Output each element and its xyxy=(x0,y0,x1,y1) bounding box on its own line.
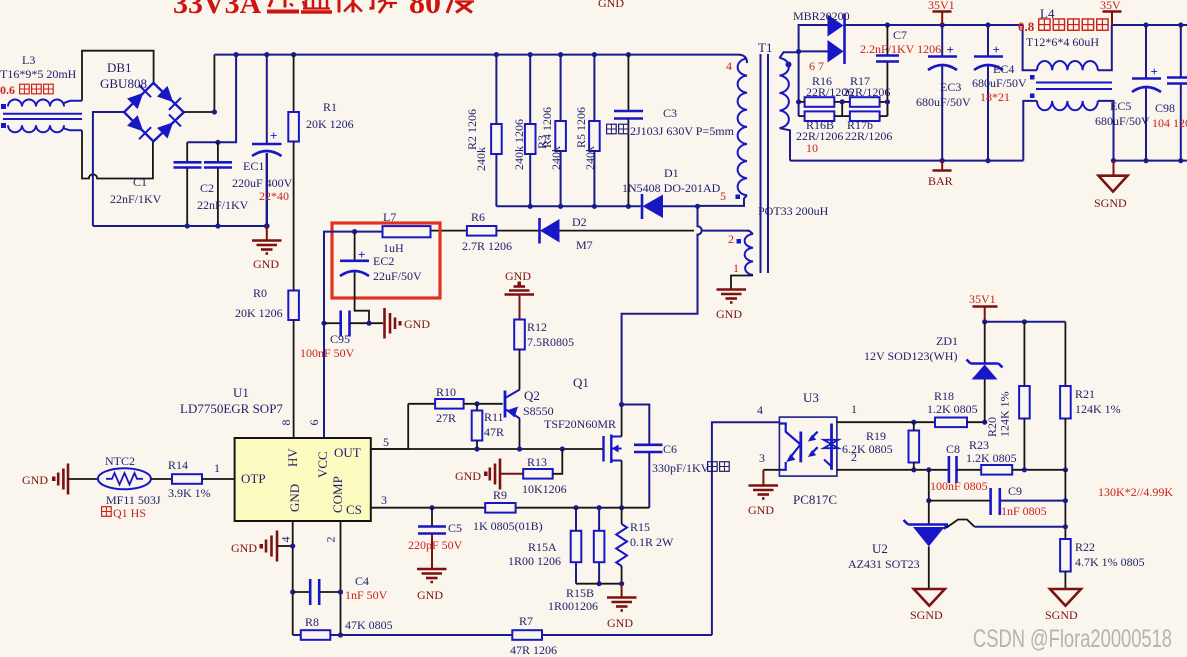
svg-text:EC4: EC4 xyxy=(993,62,1014,76)
wire: C1/C2 feed from bus xyxy=(187,55,236,143)
svg-text:1: 1 xyxy=(214,461,220,475)
transistor Q2 S8550 (PNP) xyxy=(505,385,554,449)
svg-text:12V SOD123(WH): 12V SOD123(WH) xyxy=(864,349,957,363)
svg-text:SGND: SGND xyxy=(1094,196,1127,210)
inductor L7 xyxy=(383,210,431,255)
svg-text:CSDN @Flora20000518: CSDN @Flora20000518 xyxy=(973,625,1172,653)
zener ZD1 xyxy=(864,322,1003,422)
svg-text:EC1: EC1 xyxy=(243,159,264,173)
svg-text:5: 5 xyxy=(383,435,389,449)
svg-text:+: + xyxy=(947,42,954,57)
svg-text:C8: C8 xyxy=(946,442,960,456)
svg-text:AZ431 SOT23: AZ431 SOT23 xyxy=(848,557,920,571)
wire T1 pin5 to D1 node xyxy=(698,195,748,206)
svg-text:L7: L7 xyxy=(383,210,396,224)
svg-text:R15: R15 xyxy=(630,520,650,534)
resistor R21 xyxy=(1060,322,1121,470)
svg-text:130K*2//4.99K: 130K*2//4.99K xyxy=(1098,485,1173,499)
svg-text:104 1206: 104 1206 xyxy=(1152,116,1187,130)
resistor R5 xyxy=(574,55,600,207)
svg-text:Q1: Q1 xyxy=(573,375,589,390)
inverted ground above R12 xyxy=(505,269,535,320)
ground under T1 pin1 xyxy=(716,290,746,322)
dual diode MBR20200 xyxy=(793,9,850,64)
svg-text:2J103J 630V P=5mm: 2J103J 630V P=5mm xyxy=(630,124,735,138)
sense bottom rail xyxy=(576,583,622,585)
svg-text:3: 3 xyxy=(759,451,765,465)
resistor R15A xyxy=(508,508,581,584)
svg-text:+: + xyxy=(270,128,277,143)
svg-text:R9: R9 xyxy=(493,488,507,502)
capacitor EC5 xyxy=(1095,25,1161,161)
svg-text:22uF/50V: 22uF/50V xyxy=(373,269,422,283)
light arrows xyxy=(810,432,818,440)
diode left-top xyxy=(126,85,151,110)
resistor R16B xyxy=(796,99,890,143)
capacitor C7 snubber xyxy=(860,25,941,116)
LED inside xyxy=(779,424,800,445)
svg-text:GBU808: GBU808 xyxy=(100,76,147,91)
divider column down xyxy=(1064,470,1066,539)
ground under EC1 xyxy=(252,226,282,271)
ground at U1 pin4 xyxy=(231,531,293,562)
resistor R8 xyxy=(293,615,393,640)
svg-text:240k: 240k xyxy=(549,146,563,170)
svg-text:PC817C: PC817C xyxy=(793,492,837,507)
resistor R14 xyxy=(151,458,235,500)
svg-text:DB1: DB1 xyxy=(107,60,132,75)
wire AC1 loop around DB1 label xyxy=(82,51,154,101)
wire pin4 down to C4/R8 xyxy=(292,521,294,635)
diode top-right xyxy=(156,85,181,110)
svg-text:2.7R 1206: 2.7R 1206 xyxy=(462,239,512,253)
inductor L4 (output choke) xyxy=(1018,6,1114,161)
svg-text:22*40: 22*40 xyxy=(259,189,289,203)
phototransistor xyxy=(830,424,833,470)
svg-text:4.7K 1% 0805: 4.7K 1% 0805 xyxy=(1075,555,1145,569)
resistor R4 xyxy=(540,55,566,207)
svg-text:0.1R 2W: 0.1R 2W xyxy=(630,535,674,549)
svg-text:2.2nF/1KV 1206: 2.2nF/1KV 1206 xyxy=(860,42,941,56)
温 xyxy=(303,1,305,7)
svg-text:U3: U3 xyxy=(803,390,819,405)
svg-text:1R001206: 1R001206 xyxy=(548,599,598,613)
svg-text:OUT: OUT xyxy=(334,445,361,460)
svg-text:VCC: VCC xyxy=(315,451,330,478)
svg-text:S8550: S8550 xyxy=(523,404,554,418)
wire pin2 COMP down xyxy=(340,521,342,635)
svg-text:OTP: OTP xyxy=(241,471,266,486)
svg-text:1: 1 xyxy=(733,261,739,275)
secondary upper (pins 6/7 - 10) xyxy=(780,58,789,128)
svg-text:GND: GND xyxy=(748,503,774,517)
capacitor C95 xyxy=(300,311,383,361)
svg-text:1nF 0805: 1nF 0805 xyxy=(1001,504,1047,518)
svg-text:Q2: Q2 xyxy=(524,388,540,403)
svg-text:C95: C95 xyxy=(330,332,350,346)
resistor R6 xyxy=(430,210,538,253)
resistor R2 xyxy=(465,55,502,207)
svg-text:18*21: 18*21 xyxy=(980,90,1010,104)
过 xyxy=(269,0,272,7)
svg-text:R15A: R15A xyxy=(528,540,557,554)
svg-text:GND: GND xyxy=(231,541,257,555)
power bar 35V1 (feedback) xyxy=(969,292,998,322)
svg-text:GND: GND xyxy=(716,307,742,321)
svg-text:330pF/1KV: 330pF/1KV xyxy=(652,461,710,475)
resistor R7 xyxy=(510,614,712,657)
svg-text:1nF 50V: 1nF 50V xyxy=(345,588,388,602)
svg-text:R8: R8 xyxy=(305,615,319,629)
svg-text:C9: C9 xyxy=(1008,484,1022,498)
保 xyxy=(338,0,341,13)
resistor R3 xyxy=(512,55,549,207)
primary winding (pins 4-5) xyxy=(738,59,747,196)
svg-text:2: 2 xyxy=(324,537,338,543)
svg-text:27R: 27R xyxy=(436,411,456,425)
clamp bottom row xyxy=(496,205,640,207)
resistor R18 xyxy=(927,389,985,427)
U2 cathode column xyxy=(928,470,930,524)
护 xyxy=(370,0,374,9)
svg-text:U1: U1 xyxy=(233,385,249,400)
svg-text:ZD1: ZD1 xyxy=(936,334,958,348)
svg-text:6 7: 6 7 xyxy=(809,59,824,73)
svg-text:COMP: COMP xyxy=(330,476,345,513)
diode bottom-right xyxy=(156,114,181,139)
resistor R16 xyxy=(805,74,854,107)
capacitor EC1 (electrolytic) xyxy=(232,55,293,229)
svg-text:MF11 503J: MF11 503J xyxy=(106,493,161,507)
resistor R12 xyxy=(514,320,574,386)
diode D1 1N5408 xyxy=(622,166,721,219)
svg-text:GND: GND xyxy=(455,469,481,483)
capacitor C4 xyxy=(293,574,388,605)
thermistor NTC2 xyxy=(68,454,161,520)
transistor Q1 TSF20N60MR xyxy=(544,375,624,508)
svg-text:EC5: EC5 xyxy=(1110,99,1131,113)
svg-text:22R/1206: 22R/1206 xyxy=(843,85,890,99)
SGND under R22 xyxy=(1045,589,1081,622)
svg-text:GND: GND xyxy=(505,269,531,283)
svg-text:M7: M7 xyxy=(576,238,593,252)
capacitor C6 xyxy=(622,405,730,508)
capacitor C9 xyxy=(929,484,1066,518)
power bar 35V1 xyxy=(928,0,955,25)
svg-text:0.6: 0.6 xyxy=(0,83,15,97)
svg-text:GND: GND xyxy=(253,257,279,271)
svg-text:SGND: SGND xyxy=(910,608,943,622)
svg-text:20K 1206: 20K 1206 xyxy=(235,306,283,320)
svg-text:1N5408 DO-201AD: 1N5408 DO-201AD xyxy=(622,181,721,195)
svg-text:7.5R0805: 7.5R0805 xyxy=(527,335,574,349)
gate row xyxy=(371,448,603,450)
svg-text:SGND: SGND xyxy=(1045,608,1078,622)
resistor R15 (zigzag) xyxy=(616,508,674,584)
resistor R1 xyxy=(288,55,353,142)
resistor R13 xyxy=(522,449,567,496)
resistor R17b xyxy=(806,111,892,155)
resistor R15B xyxy=(548,508,604,613)
svg-text:R18: R18 xyxy=(934,389,954,403)
svg-text:4: 4 xyxy=(757,403,763,417)
svg-text:CS: CS xyxy=(346,502,362,517)
svg-text:GND: GND xyxy=(22,473,48,487)
svg-text:R23: R23 xyxy=(969,438,989,452)
svg-text:4: 4 xyxy=(279,537,293,543)
svg-text:C3: C3 xyxy=(663,106,677,120)
svg-text:100nF 0805: 100nF 0805 xyxy=(930,479,988,493)
svg-text:R5 1206: R5 1206 xyxy=(574,107,588,148)
svg-text:22R/1206: 22R/1206 xyxy=(845,129,892,143)
svg-text:220pF 50V: 220pF 50V xyxy=(408,538,463,552)
svg-text:3: 3 xyxy=(381,493,387,507)
svg-text:C5: C5 xyxy=(448,521,462,535)
wire anode 2 xyxy=(799,50,828,52)
wire DC-plus: right vertex to top bus xyxy=(184,55,215,112)
feedback top rail xyxy=(985,321,1066,323)
resistor R20 xyxy=(985,322,1030,470)
svg-text:8: 8 xyxy=(279,420,293,426)
svg-text:R10: R10 xyxy=(436,385,456,399)
shunt ref U2 AZ431 xyxy=(848,520,1065,589)
svg-text:R15B: R15B xyxy=(566,586,594,600)
bottom feedback row xyxy=(341,634,513,636)
resistor R17 xyxy=(799,74,891,107)
capacitor C98 xyxy=(1152,25,1187,161)
wire drain node down with hop over D2 row xyxy=(622,206,702,404)
svg-text:R6: R6 xyxy=(471,210,485,224)
svg-text:GND: GND xyxy=(598,0,624,10)
svg-text:2: 2 xyxy=(728,232,734,246)
inductor L3 (common-mode choke) xyxy=(0,53,82,132)
optocoupler U3 PC817C xyxy=(779,390,838,507)
svg-text:BAR: BAR xyxy=(928,174,953,188)
svg-text:C7: C7 xyxy=(893,28,907,42)
U3 pin1 row xyxy=(836,421,935,423)
wire pin6/7 node xyxy=(798,52,800,116)
svg-text:1: 1 xyxy=(851,402,857,416)
diode D2 M7 xyxy=(540,215,750,252)
svg-text:R11: R11 xyxy=(484,410,504,424)
power bar 35V xyxy=(1100,0,1122,25)
OUT wire from U1 pin5 xyxy=(371,404,408,449)
svg-text:LD7750EGR SOP7: LD7750EGR SOP7 xyxy=(180,401,283,416)
svg-text:NTC2: NTC2 xyxy=(105,454,135,468)
svg-text:GND: GND xyxy=(607,616,633,630)
svg-text:80: 80 xyxy=(409,0,441,20)
svg-text:GND: GND xyxy=(287,484,302,512)
svg-text:220uF 400V: 220uF 400V xyxy=(232,176,293,190)
svg-text:680uF/50V: 680uF/50V xyxy=(972,76,1027,90)
svg-text:20K 1206: 20K 1206 xyxy=(306,117,354,131)
ground under R15 xyxy=(607,584,637,630)
title CJK glyph strokes (bottom halves, cut by top edge) xyxy=(267,0,474,13)
svg-text:R19: R19 xyxy=(866,429,886,443)
ground left of NTC2 xyxy=(22,464,68,495)
svg-text:R12: R12 xyxy=(527,320,547,334)
svg-text:POT33 200uH: POT33 200uH xyxy=(758,204,829,218)
svg-text:C4: C4 xyxy=(355,574,369,588)
resistor R22 xyxy=(1060,539,1145,589)
svg-text:+: + xyxy=(1151,64,1158,79)
CS row xyxy=(371,507,485,509)
transformer T1 xyxy=(720,40,829,289)
svg-text:T12*6*4 60uH: T12*6*4 60uH xyxy=(1026,35,1099,49)
ground right of C95 xyxy=(385,308,431,339)
capacitor EC3 xyxy=(916,25,971,161)
capacitor C5 xyxy=(408,508,463,569)
U3 pin 3 + ground xyxy=(748,451,779,517)
svg-text:MBR20200: MBR20200 xyxy=(793,9,850,23)
resistor R0 xyxy=(235,142,299,321)
svg-text:+: + xyxy=(993,42,1000,57)
core xyxy=(760,54,762,273)
capacitor EC2 xyxy=(340,232,422,324)
svg-text:240k 1206: 240k 1206 xyxy=(512,119,526,170)
wire AC2 bottom with hop xyxy=(82,130,153,178)
svg-text:R13: R13 xyxy=(527,455,547,469)
svg-text:U2: U2 xyxy=(872,541,888,556)
SGND symbol top right xyxy=(1094,161,1128,210)
svg-text:R14: R14 xyxy=(168,458,188,472)
svg-text:Q1 HS: Q1 HS xyxy=(113,506,146,520)
svg-text:1uH: 1uH xyxy=(383,241,404,255)
svg-text:D2: D2 xyxy=(572,215,587,229)
capacitor C3 xyxy=(607,55,735,207)
svg-text:C1: C1 xyxy=(133,175,147,189)
svg-text:47R 1206: 47R 1206 xyxy=(510,643,557,657)
wire pin10 to bottom rail xyxy=(790,160,1023,162)
svg-text:T16*9*5 20mH: T16*9*5 20mH xyxy=(0,67,77,81)
svg-text:C6: C6 xyxy=(663,442,677,456)
wire VCC node xyxy=(324,232,383,438)
svg-text:EC2: EC2 xyxy=(373,254,394,268)
svg-text:100nF 50V: 100nF 50V xyxy=(300,346,355,360)
resistor 1K 0805(01B) xyxy=(473,503,543,533)
svg-text:680uF/50V: 680uF/50V xyxy=(1095,114,1150,128)
svg-text:240k: 240k xyxy=(474,147,488,171)
svg-text:R2 1206: R2 1206 xyxy=(465,109,479,150)
op-amp U1 LD7750EGR xyxy=(180,385,389,543)
svg-text:47K 0805: 47K 0805 xyxy=(345,618,393,632)
svg-text:R1: R1 xyxy=(323,100,337,114)
svg-text:C98: C98 xyxy=(1155,101,1175,115)
wire R0 to U1 pin 8 xyxy=(293,320,295,438)
svg-text:124K 1%: 124K 1% xyxy=(1075,402,1121,416)
SGND rail right xyxy=(1114,160,1187,162)
svg-text:35V1: 35V1 xyxy=(969,292,996,306)
svg-text:GND: GND xyxy=(404,317,430,331)
svg-text:35V: 35V xyxy=(1100,0,1121,12)
svg-text:R4 1206: R4 1206 xyxy=(540,107,554,148)
U3 pin2 row xyxy=(836,469,948,471)
svg-text:4: 4 xyxy=(726,59,732,73)
svg-text:L3: L3 xyxy=(22,53,35,67)
svg-text:10K1206: 10K1206 xyxy=(522,482,567,496)
svg-text:5: 5 xyxy=(720,189,726,203)
svg-text:3.9K 1%: 3.9K 1% xyxy=(168,486,211,500)
svg-text:1.2K 0805: 1.2K 0805 xyxy=(966,451,1017,465)
svg-text:680uF/50V: 680uF/50V xyxy=(916,95,971,109)
svg-text:T1: T1 xyxy=(758,40,772,55)
svg-text:1.2K 0805: 1.2K 0805 xyxy=(927,402,978,416)
svg-text:22nF/1KV: 22nF/1KV xyxy=(110,192,162,206)
power bar BAR xyxy=(928,161,953,188)
ground + R9 left of R13 xyxy=(455,459,523,503)
red highlight box xyxy=(332,223,440,298)
secondary lower (pins 2-1) xyxy=(745,234,753,275)
svg-text:TSF20N60MR: TSF20N60MR xyxy=(544,417,616,431)
top bus (navy) xyxy=(214,55,747,63)
resistor R11 xyxy=(472,401,504,449)
度 xyxy=(447,0,452,13)
ground under C5 xyxy=(417,569,447,602)
svg-text:R22: R22 xyxy=(1075,540,1095,554)
35V output bus xyxy=(1112,24,1187,26)
svg-text:22R/1206: 22R/1206 xyxy=(796,129,843,143)
svg-text:R0: R0 xyxy=(253,286,267,300)
svg-text:10: 10 xyxy=(806,141,818,155)
svg-text:1K 0805(01B): 1K 0805(01B) xyxy=(473,519,543,533)
35V1 output bus xyxy=(845,24,1023,26)
svg-text:EC3: EC3 xyxy=(940,80,961,94)
svg-text:240k: 240k xyxy=(583,146,597,170)
svg-text:124K 1%: 124K 1% xyxy=(998,391,1012,437)
svg-text:22nF/1KV: 22nF/1KV xyxy=(197,198,249,212)
svg-text:GND: GND xyxy=(417,588,443,602)
svg-text:35V1: 35V1 xyxy=(928,0,955,12)
resistor R23 xyxy=(966,438,1068,475)
resistor R10 xyxy=(408,385,503,425)
capacitor EC4 xyxy=(972,25,1027,161)
svg-text:R21: R21 xyxy=(1075,387,1095,401)
bridge rectifier DB1 GBU808 xyxy=(100,60,184,141)
svg-text:R7: R7 xyxy=(519,614,533,628)
resistor R19 xyxy=(842,422,919,470)
svg-text:6: 6 xyxy=(307,420,321,426)
svg-text:0.8: 0.8 xyxy=(1018,19,1035,34)
svg-text:1R00 1206: 1R00 1206 xyxy=(508,554,561,568)
svg-text:HV: HV xyxy=(285,448,300,467)
diode bottom-left xyxy=(126,114,151,139)
svg-text:C2: C2 xyxy=(200,181,214,195)
svg-text:47R: 47R xyxy=(484,425,504,439)
svg-text:D1: D1 xyxy=(664,166,679,180)
wire up to U3 pin 4 xyxy=(712,422,780,635)
capacitor C2 xyxy=(197,142,249,228)
wire DC-minus: left vertex down to bottom rail xyxy=(93,112,124,226)
bottom rail of input xyxy=(93,225,267,227)
wire anode top loop xyxy=(799,25,828,52)
SGND under U2 xyxy=(910,589,945,622)
svg-text:6.2K 0805: 6.2K 0805 xyxy=(842,442,893,456)
capacitor C1 xyxy=(110,142,202,228)
capacitor C8 (series in pin2 row) xyxy=(930,442,988,493)
svg-text:33V3A: 33V3A xyxy=(173,0,262,20)
